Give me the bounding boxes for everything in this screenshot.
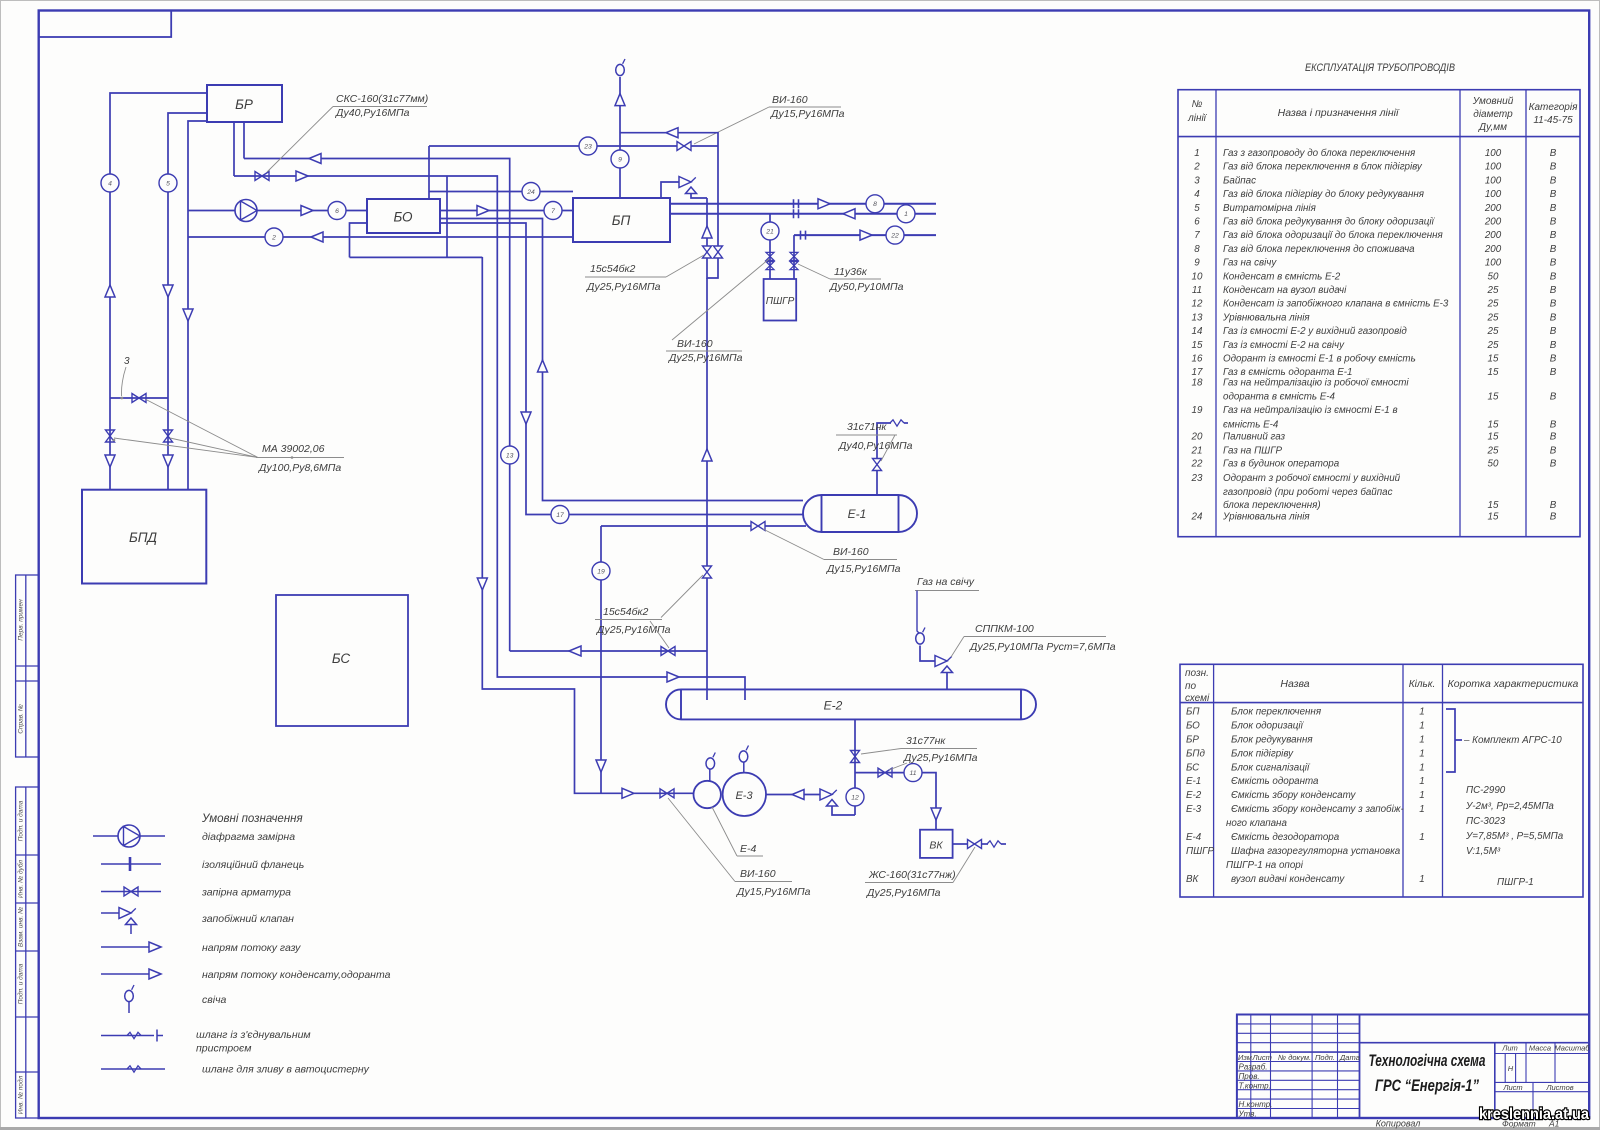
- svg-text:ВИ-160: ВИ-160: [677, 338, 713, 350]
- legend safety valve: [101, 912, 119, 914]
- svg-text:Копировал: Копировал: [1376, 1119, 1421, 1129]
- svg-text:Урівнювальна лінія: Урівнювальна лінія: [1222, 512, 1310, 523]
- wire line 5: [168, 113, 207, 490]
- svg-text:У=7,85М³ , Р=5,5МПа: У=7,85М³ , Р=5,5МПа: [1465, 831, 1564, 842]
- svg-text:В: В: [1550, 312, 1557, 323]
- svg-text:15: 15: [1488, 419, 1499, 430]
- svg-text:БС: БС: [1186, 762, 1200, 773]
- svg-text:Газ від блока одоризації до бл: Газ від блока одоризації до блока перекл…: [1223, 230, 1444, 241]
- svg-text:БП: БП: [1186, 707, 1200, 718]
- svg-text:Ду40,Ру16МПа: Ду40,Ру16МПа: [335, 107, 410, 119]
- svg-text:Ду15,Ру16МПа: Ду15,Ру16МПа: [770, 108, 845, 120]
- svg-text:Дата: Дата: [1339, 1053, 1360, 1062]
- svg-text:ВК: ВК: [1186, 874, 1200, 885]
- flow arrow branch left: [666, 128, 678, 138]
- svg-text:1: 1: [1419, 832, 1424, 843]
- svg-text:15: 15: [1192, 340, 1203, 351]
- svg-text:Газ від блока переключення в б: Газ від блока переключення в блок підігр…: [1223, 162, 1423, 173]
- svg-text:№: №: [1192, 99, 1203, 110]
- wire svicha main down: [706, 278, 708, 566]
- flow arrow line10 right: [296, 171, 308, 181]
- svg-text:Блок одоризації: Блок одоризації: [1231, 721, 1305, 732]
- svg-text:Взам. инв. №: Взам. инв. №: [18, 907, 25, 947]
- candle top: [616, 59, 625, 76]
- svg-text:Одорант з робочої ємності у ви: Одорант з робочої ємності у вихідний: [1223, 473, 1401, 484]
- flow arrow Е-3 left: [792, 790, 804, 800]
- legend shut-off valve: [101, 891, 161, 893]
- characteristics column: [1463, 735, 1564, 888]
- wire candle drop: [917, 591, 919, 634]
- svg-text:11у36к: 11у36к: [834, 266, 868, 278]
- svg-text:Конденсат на вузол видачі: Конденсат на вузол видачі: [1223, 285, 1347, 296]
- svg-text:Ду15,Ру16МПа: Ду15,Ру16МПа: [736, 886, 811, 898]
- legend condensate flow arrow: [101, 973, 150, 975]
- flange line8: [794, 199, 799, 208]
- svg-text:В: В: [1550, 175, 1557, 186]
- svg-text:1: 1: [1419, 790, 1424, 801]
- svg-text:В: В: [1550, 367, 1557, 378]
- wire collector to Е-3: [482, 257, 693, 793]
- circle node 2: [265, 228, 283, 246]
- svg-text:Подп. и дата: Подп. и дата: [17, 963, 25, 1004]
- svg-text:Ду25,Ру16МПа: Ду25,Ру16МПа: [586, 281, 661, 293]
- svg-text:23: 23: [1191, 473, 1203, 484]
- wire БР stub 13: [243, 122, 245, 159]
- sheet footer labels: [1376, 1119, 1560, 1129]
- svg-text:Газ на свічу: Газ на свічу: [1223, 258, 1277, 269]
- valve U-link: [707, 258, 718, 278]
- flow arrow line7: [477, 206, 489, 216]
- valve svicha mid: [703, 566, 712, 578]
- svg-text:по: по: [1185, 681, 1197, 692]
- svg-text:Шафна газорегуляторна установк: Шафна газорегуляторна установка: [1231, 846, 1401, 857]
- block БПД: [82, 490, 206, 584]
- svg-text:8: 8: [873, 201, 877, 208]
- svg-text:19: 19: [597, 568, 605, 575]
- svg-text:Назва і призначення лінії: Назва і призначення лінії: [1278, 107, 1400, 119]
- circle node 8: [866, 195, 884, 213]
- wire line 19: [600, 526, 602, 793]
- svg-text:В: В: [1550, 285, 1557, 296]
- legend hose for tank truck: [101, 1068, 165, 1070]
- svg-text:Газ із ємності Е-2 у вихідний: Газ із ємності Е-2 у вихідний газопровід: [1223, 326, 1407, 337]
- svg-text:схемі: схемі: [1185, 693, 1210, 704]
- svg-text:Умовні позначення: Умовні позначення: [201, 813, 303, 825]
- wire line 1 input: [670, 213, 936, 215]
- valve ВИ-160 Е-1: [751, 522, 765, 531]
- svg-text:50: 50: [1488, 459, 1499, 470]
- svg-text:15с54бк2: 15с54бк2: [590, 263, 635, 275]
- svg-text:ВИ-160: ВИ-160: [833, 546, 869, 558]
- pipelines table rows: [1191, 148, 1557, 523]
- svg-text:В: В: [1550, 500, 1557, 511]
- svg-text:200: 200: [1484, 203, 1502, 214]
- svg-text:Масса: Масса: [1529, 1044, 1551, 1053]
- flow arrow svicha line up: [702, 449, 712, 461]
- svg-text:21: 21: [1191, 446, 1203, 457]
- svg-text:напрям потоку конденсату,одора: напрям потоку конденсату,одоранта: [202, 969, 391, 981]
- svg-text:15: 15: [1488, 367, 1499, 378]
- svg-text:В: В: [1550, 354, 1557, 365]
- svg-text:12: 12: [1192, 299, 1203, 310]
- svg-text:ПШГР-1 на опорі: ПШГР-1 на опорі: [1226, 860, 1304, 871]
- wire ПШГР right riser: [793, 235, 795, 279]
- svg-text:В: В: [1550, 392, 1557, 403]
- svg-text:16: 16: [1192, 354, 1203, 365]
- wire line 22: [794, 234, 936, 236]
- svg-text:Ду40,Ру16МПа: Ду40,Ру16МПа: [838, 440, 913, 452]
- svg-text:15: 15: [1488, 500, 1499, 511]
- svg-text:В: В: [1550, 203, 1557, 214]
- svg-text:5: 5: [1194, 203, 1200, 214]
- svg-text:Н.контр.: Н.контр.: [1239, 1100, 1273, 1109]
- svg-text:25: 25: [1487, 340, 1499, 351]
- svg-text:Ємкість одоранта: Ємкість одоранта: [1231, 776, 1319, 787]
- wire safety valve Е-3 link: [832, 806, 855, 815]
- svg-text:пристроєм: пристроєм: [196, 1043, 251, 1055]
- svg-text:Ємкість збору конденсату: Ємкість збору конденсату: [1231, 790, 1357, 801]
- svg-text:Газ від блока підігріву до бло: Газ від блока підігріву до блоку редукув…: [1223, 189, 1425, 200]
- svg-text:В: В: [1550, 148, 1557, 159]
- svg-text:24: 24: [1191, 512, 1203, 523]
- circle node 7: [544, 202, 562, 220]
- flow arrow line13 left: [309, 154, 321, 164]
- svg-text:Пров.: Пров.: [1239, 1072, 1260, 1081]
- wire Е-2 drain: [854, 719, 856, 815]
- top-left reference box: [39, 11, 172, 38]
- wire line 17: [440, 223, 803, 515]
- svg-text:Ду25,Ру10МПа Руст=7,6МПа: Ду25,Ру10МПа Руст=7,6МПа: [969, 641, 1116, 653]
- svg-text:Газ від блока переключення до: Газ від блока переключення до споживача: [1223, 244, 1415, 255]
- safety valve Е-3: [820, 789, 838, 806]
- legend insulating flange: [101, 863, 161, 865]
- circle node 13: [501, 446, 519, 464]
- svg-text:Ду15,Ру16МПа: Ду15,Ру16МПа: [826, 563, 901, 575]
- wire stub БО top: [428, 146, 430, 199]
- svg-text:15с54бк2: 15с54бк2: [603, 606, 648, 618]
- svg-text:В: В: [1550, 512, 1557, 523]
- wire svicha branch right: [620, 133, 718, 246]
- wire line 13 upper run: [244, 159, 510, 652]
- svg-text:БС: БС: [332, 651, 350, 666]
- svg-text:ВК: ВК: [929, 840, 943, 852]
- valve line 5: [164, 430, 173, 442]
- svg-text:1: 1: [1419, 748, 1424, 759]
- flow arrow line8: [818, 199, 830, 209]
- double valve ПШГР left: [766, 252, 774, 269]
- wire line 10 БР to Е-2: [234, 176, 745, 700]
- circle node 17: [551, 506, 569, 524]
- svg-text:Е-3: Е-3: [1186, 804, 1202, 815]
- wire line 23: [429, 145, 677, 147]
- svg-text:17: 17: [556, 512, 564, 519]
- svg-text:Инв. № подл: Инв. № подл: [17, 1075, 25, 1114]
- diaphragm symbol: [235, 200, 257, 222]
- wire Е-1 feed: [601, 525, 751, 527]
- circle node 23: [579, 137, 597, 155]
- svg-text:Кільк.: Кільк.: [1409, 679, 1436, 690]
- svg-text:шланг для зливу в автоцистерну: шланг для зливу в автоцистерну: [202, 1064, 370, 1076]
- svg-text:газопровід (при роботі через б: газопровід (при роботі через байпас: [1223, 487, 1393, 498]
- pipelines table grid: [1178, 90, 1580, 537]
- wire odorant tee x447: [446, 176, 448, 257]
- svg-text:10: 10: [1192, 271, 1203, 282]
- svg-text:ПШГР: ПШГР: [766, 296, 795, 307]
- vessel Е-4: [694, 781, 721, 808]
- svg-text:В: В: [1550, 326, 1557, 337]
- svg-text:В: В: [1550, 230, 1557, 241]
- circle node 1: [897, 205, 915, 223]
- svg-text:Изм: Изм: [1238, 1053, 1252, 1062]
- svg-text:Ду25,Ру16МПа: Ду25,Ру16МПа: [903, 752, 978, 764]
- svg-text:запірна арматура: запірна арматура: [201, 887, 291, 899]
- svg-text:1: 1: [904, 211, 908, 218]
- svg-text:200: 200: [1484, 244, 1502, 255]
- title block outer: [1237, 1015, 1589, 1119]
- svg-text:В: В: [1550, 299, 1557, 310]
- svg-text:Е-4: Е-4: [1186, 832, 1202, 843]
- block ПШГР: [764, 279, 797, 321]
- valve СКС on line10: [255, 172, 269, 181]
- flow arrow ВК down: [931, 808, 941, 820]
- svg-text:Газ на нейтралізацію із робочо: Газ на нейтралізацію із робочої ємності: [1223, 377, 1409, 388]
- svg-text:запобіжний клапан: запобіжний клапан: [201, 913, 294, 925]
- svg-text:ПШГР-1: ПШГР-1: [1497, 877, 1534, 888]
- svg-text:Подп.: Подп.: [1315, 1053, 1335, 1062]
- svg-text:Утв.: Утв.: [1238, 1110, 1257, 1119]
- svg-text:Конденсат в ємність Е-2: Конденсат в ємність Е-2: [1223, 271, 1341, 282]
- svg-text:діаметр: діаметр: [1473, 109, 1513, 120]
- legend diaphragm: [93, 835, 165, 837]
- wire line 2 horizontal: [188, 236, 573, 238]
- vessel Е-1: [803, 495, 917, 532]
- flow arrow 19 down: [596, 760, 606, 772]
- svg-text:31с77нк: 31с77нк: [906, 735, 946, 747]
- svg-text:Е-2: Е-2: [824, 699, 843, 713]
- svg-text:Ду25,Ру16МПа: Ду25,Ру16МПа: [866, 887, 941, 899]
- svg-text:11: 11: [1192, 285, 1202, 296]
- valve line 13: [661, 647, 675, 656]
- svg-text:19: 19: [1192, 405, 1203, 416]
- svg-text:22: 22: [1191, 459, 1203, 470]
- svg-text:200: 200: [1484, 217, 1502, 228]
- svg-text:Блок переключення: Блок переключення: [1231, 707, 1322, 718]
- svg-text:Инв. № дубл: Инв. № дубл: [17, 860, 25, 899]
- valve bypass 3: [132, 394, 146, 403]
- svg-text:Е-3: Е-3: [735, 790, 753, 802]
- circle node 11: [904, 764, 922, 782]
- wire odorant collector: [350, 223, 483, 257]
- svg-text:Е-1: Е-1: [848, 507, 867, 521]
- wire svicha stack: [619, 77, 621, 198]
- svg-text:СКС-160(31с77мм): СКС-160(31с77мм): [336, 93, 428, 105]
- svg-text:1: 1: [1419, 776, 1424, 787]
- svg-text:1: 1: [1419, 804, 1424, 815]
- svg-text:У-2м³, Рр=2,45МПа: У-2м³, Рр=2,45МПа: [1465, 801, 1554, 812]
- flow arrow line13 left2: [569, 646, 581, 656]
- circle node 21: [761, 222, 779, 240]
- svg-text:Ду100,Ру8,6МПа: Ду100,Ру8,6МПа: [258, 462, 341, 474]
- svg-text:11-45-75: 11-45-75: [1533, 115, 1573, 126]
- equipment table grid: [1180, 664, 1583, 897]
- svg-text:1: 1: [1194, 148, 1199, 159]
- svg-text:21: 21: [765, 228, 774, 235]
- svg-text:1: 1: [1419, 734, 1424, 745]
- svg-text:15: 15: [1488, 392, 1499, 403]
- svg-text:9: 9: [618, 156, 622, 163]
- flange line1: [794, 209, 799, 218]
- svg-text:12: 12: [851, 794, 859, 801]
- svg-text:Т.контр.: Т.контр.: [1239, 1081, 1271, 1090]
- svg-text:2: 2: [271, 234, 276, 241]
- wire Е-3 right line: [766, 794, 820, 796]
- block БР: [207, 85, 282, 122]
- svg-text:Перв. примен: Перв. примен: [18, 599, 25, 641]
- svg-text:Урівнювальна лінія: Урівнювальна лінія: [1222, 312, 1310, 323]
- svg-text:23: 23: [583, 143, 592, 150]
- svg-text:В: В: [1550, 446, 1557, 457]
- svg-text:ПС-2990: ПС-2990: [1466, 785, 1506, 796]
- svg-text:напрям потоку газу: напрям потоку газу: [202, 942, 301, 954]
- svg-text:Разраб.: Разраб.: [1239, 1063, 1268, 1072]
- svg-text:ЖС-160(31с77нж): ЖС-160(31с77нж): [868, 869, 956, 881]
- svg-text:БП: БП: [612, 213, 631, 228]
- hose zigzag ВК: [987, 841, 1001, 847]
- circle node 19: [592, 562, 610, 580]
- svg-text:9: 9: [1194, 258, 1200, 269]
- title block middle: document name: [1360, 1042, 1590, 1044]
- legend hose with connector: [101, 1035, 154, 1037]
- svg-text:100: 100: [1485, 175, 1502, 186]
- svg-text:Ємкість дезодоратора: Ємкість дезодоратора: [1231, 832, 1340, 843]
- svg-text:Блок редукування: Блок редукування: [1231, 734, 1313, 745]
- wire metering line with diaphragm: [188, 210, 367, 212]
- left margin box lower (Подп. и дата ... Инв. № подл.): [16, 787, 39, 1118]
- valve 31с71нк over Е-1: [876, 470, 878, 495]
- svg-text:ПС-3023: ПС-3023: [1466, 816, 1506, 827]
- wire line 2 vertical: [188, 121, 207, 490]
- candle Е-3: [743, 762, 745, 773]
- legend gas flow arrow: [101, 946, 150, 948]
- svg-text:Паливний газ: Паливний газ: [1223, 432, 1285, 443]
- flow arrow collector down: [477, 578, 487, 590]
- svg-text:11: 11: [909, 770, 916, 777]
- wire line 24: [429, 191, 573, 193]
- svg-text:kreslennia.at.ua: kreslennia.at.ua: [1479, 1106, 1589, 1123]
- AGRS bracket: [1446, 709, 1462, 772]
- svg-text:В: В: [1550, 419, 1557, 430]
- svg-text:діафрагма замірна: діафрагма замірна: [202, 831, 295, 843]
- pipelines table header: [1187, 96, 1578, 133]
- circle node 12: [846, 788, 864, 806]
- svg-text:Технологічна схема: Технологічна схема: [1369, 1052, 1486, 1070]
- valve 31с77нк: [878, 768, 892, 777]
- svg-text:ємність Е-4: ємність Е-4: [1223, 419, 1279, 430]
- svg-text:25: 25: [1487, 299, 1499, 310]
- svg-text:4: 4: [1194, 189, 1200, 200]
- svg-text:В: В: [1550, 432, 1557, 443]
- hose zigzag Е-1: [890, 420, 904, 426]
- svg-text:Н: Н: [1508, 1064, 1514, 1073]
- wire line 13 lower run: [510, 650, 707, 652]
- svg-text:свіча: свіча: [202, 994, 226, 1006]
- svg-text:Витратомірна лінія: Витратомірна лінія: [1223, 203, 1317, 214]
- candle Е-4: [709, 769, 711, 781]
- flow arrow line16 up: [538, 360, 548, 372]
- valve ВК outlet: [968, 840, 982, 849]
- svg-text:7: 7: [1194, 230, 1200, 241]
- svg-text:Масштаб: Масштаб: [1554, 1044, 1590, 1053]
- flow arrow line22: [860, 230, 872, 240]
- wire line 16: [440, 219, 803, 501]
- svg-text:V:1,5М³: V:1,5М³: [1466, 846, 1501, 857]
- double valves svicha: [703, 246, 712, 258]
- svg-text:вузол видачі конденсату: вузол видачі конденсату: [1231, 874, 1345, 885]
- svg-text:СППКМ-100: СППКМ-100: [975, 623, 1034, 635]
- svg-text:100: 100: [1485, 258, 1502, 269]
- svg-text:1: 1: [1419, 874, 1424, 885]
- svg-text:31с71нк: 31с71нк: [847, 421, 887, 433]
- svg-text:Газ з газопроводу до блока пер: Газ з газопроводу до блока переключення: [1223, 148, 1416, 159]
- svg-text:13: 13: [506, 452, 514, 459]
- svg-text:25: 25: [1487, 326, 1499, 337]
- flow arrow svicha up: [615, 94, 625, 106]
- svg-text:25: 25: [1487, 446, 1499, 457]
- svg-text:Блок сигналізації: Блок сигналізації: [1231, 762, 1311, 773]
- svg-text:50: 50: [1488, 271, 1499, 282]
- legend candle: [125, 985, 134, 1002]
- svg-text:В: В: [1550, 340, 1557, 351]
- svg-text:ЕКСПЛУАТАЦІЯ ТРУБОПРОВОДІВ: ЕКСПЛУАТАЦІЯ ТРУБОПРОВОДІВ: [1305, 62, 1455, 74]
- flow arrow line 5 down2: [163, 455, 173, 467]
- svg-text:одоранта в ємність Е-4: одоранта в ємність Е-4: [1223, 392, 1336, 403]
- svg-text:Назва: Назва: [1280, 678, 1309, 690]
- svg-text:100: 100: [1485, 189, 1502, 200]
- svg-text:ізоляційний фланець: ізоляційний фланець: [202, 859, 304, 871]
- svg-text:5: 5: [166, 180, 170, 187]
- equipment table header: [1185, 668, 1579, 704]
- circle node 9: [611, 150, 629, 168]
- svg-text:Байпас: Байпас: [1223, 175, 1256, 186]
- wire bypass line 3: [110, 397, 168, 399]
- svg-text:В: В: [1550, 189, 1557, 200]
- svg-text:№ докум.: № докум.: [1278, 1053, 1311, 1062]
- svg-text:БР: БР: [1186, 734, 1199, 745]
- title block left grid: [1237, 1015, 1360, 1119]
- svg-text:Ду25,Ру16МПа: Ду25,Ру16МПа: [668, 352, 743, 364]
- svg-text:Е-4: Е-4: [740, 843, 757, 855]
- flow arrow line 4 up: [105, 285, 115, 297]
- svg-text:Газ від блока редукування до б: Газ від блока редукування до блоку одори…: [1223, 217, 1436, 228]
- flow arrow metering: [301, 206, 313, 216]
- title block right cells: [1495, 1043, 1589, 1118]
- svg-text:6: 6: [1194, 217, 1200, 228]
- svg-text:БО: БО: [1186, 721, 1200, 732]
- svg-text:Одорант із ємності Е-1 в робоч: Одорант із ємності Е-1 в робочу ємність: [1223, 354, 1416, 365]
- svg-text:1: 1: [1419, 707, 1424, 718]
- svg-text:Е-2: Е-2: [1186, 790, 1202, 801]
- svg-text:Газ на нейтралізацію із ємност: Газ на нейтралізацію із ємності Е-1 в: [1223, 405, 1398, 416]
- circle node 24: [522, 183, 540, 201]
- flow arrow line2 down: [183, 309, 193, 321]
- svg-text:– Комплект АГРС-10: – Комплект АГРС-10: [1463, 735, 1562, 746]
- svg-text:Ду,мм: Ду,мм: [1478, 122, 1507, 133]
- block БО: [367, 199, 440, 233]
- svg-text:позн.: позн.: [1185, 668, 1209, 679]
- valve ВИ-160 line23: [677, 142, 691, 151]
- vessel Е-2: [666, 689, 1036, 719]
- svg-text:14: 14: [1192, 326, 1203, 337]
